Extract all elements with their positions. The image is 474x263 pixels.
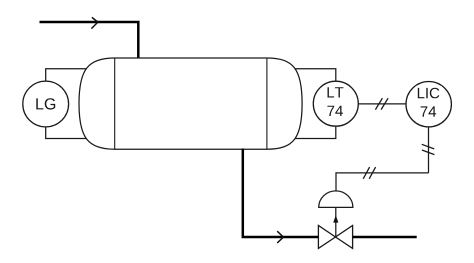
wire: LT top connection line to vessel [290,69,336,82]
vessel: horizontal drum V-1 shell outline [79,58,302,149]
label text LT [328,87,344,97]
valve actuator diaphragm (dome) [319,191,353,208]
signal line LIC to valve actuator (horizontal + drop) [336,173,429,191]
instrument bubble LIC 74 (level indicating controller) [406,82,451,127]
signal line LT to LIC (electric, horizontal) [358,103,406,105]
wire: LG top connection line to vessel [46,69,95,82]
stem arrow (filled, pointing up) [333,215,338,222]
label text 74 (LIC) [421,106,437,116]
valve stem [335,207,337,237]
instrument bubble LG (level gauge) [23,81,69,127]
signal slash marks on horizontal segment [363,167,369,179]
wire: LG bottom connection line to vessel [46,127,95,139]
signal slash marks on vertical segment [422,144,435,149]
label text 74 (LT) [327,106,343,116]
instrument bubble LT 74 (level transmitter) [313,81,358,126]
wire: LT bottom connection line to vessel [290,126,336,138]
wire: process line after valve (thick) [353,236,417,239]
flow arrow on bottoms line [277,231,283,243]
flow arrow on feed line [91,17,98,28]
wire: bottoms process line from vessel to valve (thick) [243,149,319,238]
vessel right tangent line [266,58,268,149]
signal line LIC down (vertical segment) [428,127,430,173]
control valve body (bowtie) [318,226,335,249]
label text LG [36,98,55,109]
label text LIC [418,88,440,99]
signal slash marks on LT-LIC line [375,98,382,109]
vessel left tangent line [114,58,116,149]
wire: feed process line (top, thick) into vessel top [40,22,139,59]
